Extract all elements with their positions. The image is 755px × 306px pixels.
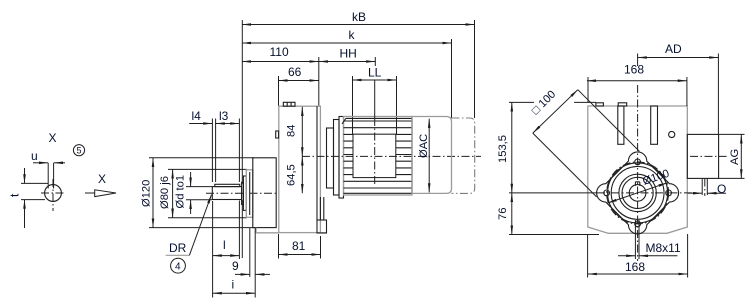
body bottom-left ledge [256,232,279,234]
svg-text:i: i [232,278,235,292]
terminal box right view [687,134,718,178]
motor fins [342,118,412,193]
svg-text:X: X [49,131,57,145]
flange horizontal centerline [597,192,698,194]
ext line 76 bottom [509,234,599,236]
dim Ø80 j6 [172,169,174,217]
keyway top ext line [21,182,48,184]
svg-text:t: t [8,193,22,197]
shaft step ring large [243,176,246,210]
svg-text:k: k [349,28,356,42]
svg-text:l3: l3 [219,109,229,123]
balloon 5 [73,145,84,156]
top tab 2 [618,103,627,106]
svg-text:9: 9 [232,259,239,273]
housing [588,106,688,233]
clover flange outline [597,152,679,234]
vent plug [283,102,295,106]
bore keyway [634,182,636,186]
ext line LL left [352,76,354,134]
shaft step ring small [242,182,244,204]
svg-text:l: l [223,238,226,252]
gearbox body [279,106,321,232]
motor adapter ring 3 [339,117,344,199]
terminal box [353,134,396,177]
dim square 100 ext line A [578,90,640,152]
ext lines Ød [186,186,212,188]
svg-text:Ød to1: Ød to1 [175,175,187,209]
flange circle 2 [611,167,664,220]
dim Ø120 [152,158,154,228]
ext line LL right [396,76,398,134]
svg-text:AG: AG [729,149,741,165]
dim 76 [511,193,513,235]
svg-text:ØAC: ØAC [418,134,430,158]
dim u [33,162,48,164]
ext line k right [451,39,453,118]
bore [629,185,646,202]
dim 64,5 [301,156,303,193]
svg-text:66: 66 [288,65,302,79]
ext lines Ø120 [149,157,254,159]
motor / end-bell junction [411,118,413,193]
left tab [276,131,279,138]
shaft bottom ext line [21,199,45,201]
flange circle outer [608,163,668,223]
svg-text:l4: l4 [192,109,202,123]
DR leader [189,195,211,256]
ext line kB right [474,20,476,118]
dim 84 [301,107,303,157]
seal ring [246,170,253,218]
dim square 100 ext line B [533,133,597,197]
output axis ext line left [509,192,598,194]
dim Ø100 (bolt circle) [608,183,668,203]
svg-text:kB: kB [352,10,366,24]
svg-text:X: X [98,172,106,186]
end bell [412,117,452,194]
balloon 4 [171,258,186,273]
svg-text:110: 110 [270,45,289,59]
ext tick HH right [374,57,376,66]
svg-text:M8x11: M8x11 [646,241,681,255]
svg-text:168: 168 [625,260,645,274]
svg-text:4: 4 [175,262,181,273]
dim t [24,168,26,183]
dim 153,5 [511,102,513,192]
svg-text:AD: AD [665,42,682,56]
box centerline [374,81,376,119]
centerline cross [41,192,66,194]
svg-text:64,5: 64,5 [286,164,298,186]
keyway wall lines [47,163,49,189]
slot 2 [651,106,658,144]
svg-text:153,5: 153,5 [497,135,509,163]
slot 1 [618,106,624,144]
svg-text:DR: DR [169,241,187,255]
svg-text:Ø120: Ø120 [141,180,153,207]
body inner vertical [316,106,318,220]
flange vertical centerline [637,54,639,67]
motor adapter ring 2 [334,120,340,196]
top tab 1 [596,103,604,106]
dim square 100 line [533,90,578,133]
bolt circle (dash-dot) [607,162,669,224]
ext line 66 left [278,76,280,106]
svg-text:u: u [31,149,38,163]
svg-text:O: O [717,182,726,196]
dim M8x11 [618,255,635,257]
svg-text:76: 76 [497,208,509,220]
ext line shaft shoulder (kB/k/110 left) [241,20,243,184]
bottom-right foot [317,220,327,233]
dim O [701,179,703,196]
motor axis centerline [302,155,481,157]
ext line 110/HH shared [318,57,320,106]
dim Ød to1 [190,172,192,187]
output shaft [212,187,241,200]
bolt holes [635,159,641,165]
svg-text:168: 168 [624,63,644,77]
flange circle 4 [622,177,653,208]
svg-text:HH: HH [340,47,357,61]
hub boss [253,158,276,228]
svg-text:5: 5 [77,146,82,156]
dim ØAC [428,119,430,193]
seal inner step [249,172,251,215]
shaft circle [45,185,62,202]
brake option dashed box [452,118,475,193]
view direction arrow [85,192,95,194]
shaft keyway strip [215,184,240,186]
flange circle 3 [619,174,656,211]
motor axis centerline right view [690,155,727,157]
svg-text:81: 81 [292,239,306,253]
motor adapter ring 1 [327,128,334,188]
small hole top right [669,131,675,137]
motor body [344,117,413,196]
M8x11 tap depth lines [634,220,636,259]
svg-text:LL: LL [368,66,382,80]
dim AG [719,133,745,135]
output axis centerline [206,192,278,194]
ext lines Ø80 [168,168,247,170]
svg-text:Ø80 j6: Ø80 j6 [159,176,171,209]
ext line 153,5 top (two segments) [509,101,534,103]
svg-text:84: 84 [286,125,298,137]
